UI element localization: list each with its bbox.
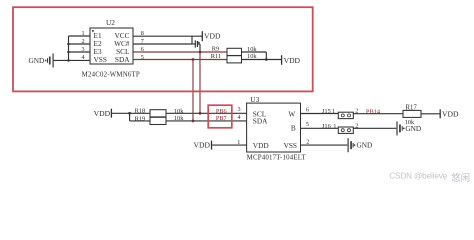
svg-text:PB7: PB7	[216, 115, 227, 122]
svg-text:10k: 10k	[174, 108, 184, 115]
svg-text:VSS: VSS	[284, 141, 297, 150]
svg-text:5: 5	[306, 121, 309, 128]
svg-text:6: 6	[141, 46, 144, 53]
svg-text:PB14: PB14	[366, 109, 381, 116]
svg-text:4: 4	[82, 54, 85, 61]
svg-text:SDA: SDA	[115, 55, 130, 64]
svg-text:2: 2	[82, 38, 85, 45]
svg-text:MCP4017T-104ELT: MCP4017T-104ELT	[247, 155, 307, 162]
svg-text:1: 1	[82, 30, 85, 37]
svg-text:SDA: SDA	[253, 116, 268, 125]
svg-text:3: 3	[82, 46, 85, 53]
svg-text:VDD: VDD	[94, 109, 111, 118]
svg-text:R19: R19	[135, 115, 146, 122]
svg-text:10k: 10k	[247, 46, 257, 53]
svg-text:VDD: VDD	[253, 141, 269, 150]
svg-text:8: 8	[141, 30, 144, 37]
svg-text:4: 4	[238, 114, 241, 121]
svg-text:2: 2	[355, 123, 358, 130]
svg-text:U2: U2	[106, 18, 115, 27]
svg-text:PB6: PB6	[216, 108, 227, 115]
svg-text:,: ,	[444, 172, 446, 181]
svg-text:R18: R18	[135, 108, 146, 115]
svg-text:10k: 10k	[247, 53, 257, 60]
svg-text:悠闲: 悠闲	[451, 172, 470, 183]
svg-text:W: W	[288, 110, 295, 119]
svg-text:VDD: VDD	[204, 31, 221, 40]
svg-text:VDD: VDD	[194, 141, 211, 150]
svg-text:J16: J16	[322, 123, 331, 130]
svg-text:VSS: VSS	[94, 55, 107, 64]
svg-text:7: 7	[141, 38, 144, 45]
svg-text:CSDN @believe: CSDN @believe	[389, 172, 447, 181]
svg-text:U3: U3	[250, 95, 259, 104]
svg-text:B: B	[291, 124, 296, 133]
svg-text:6: 6	[306, 106, 309, 113]
svg-text:1: 1	[333, 123, 336, 130]
svg-text:GND: GND	[28, 56, 44, 65]
svg-text:R9: R9	[212, 46, 219, 53]
svg-text:10k: 10k	[174, 115, 184, 122]
svg-text:5: 5	[141, 54, 144, 61]
svg-text:VDD: VDD	[284, 56, 301, 65]
svg-text:VDD: VDD	[442, 109, 459, 118]
svg-text:M24C02-WMN6TP: M24C02-WMN6TP	[82, 71, 140, 78]
svg-text:10k: 10k	[405, 119, 415, 126]
svg-text:1: 1	[237, 139, 240, 146]
svg-text:GND: GND	[357, 141, 373, 150]
svg-text:R11: R11	[211, 53, 221, 60]
svg-text:3: 3	[238, 106, 241, 113]
svg-text:2: 2	[306, 139, 309, 146]
svg-text:2: 2	[355, 108, 358, 115]
svg-text:1: 1	[332, 108, 335, 115]
svg-text:J15: J15	[322, 108, 331, 115]
svg-text:R17: R17	[406, 104, 418, 111]
